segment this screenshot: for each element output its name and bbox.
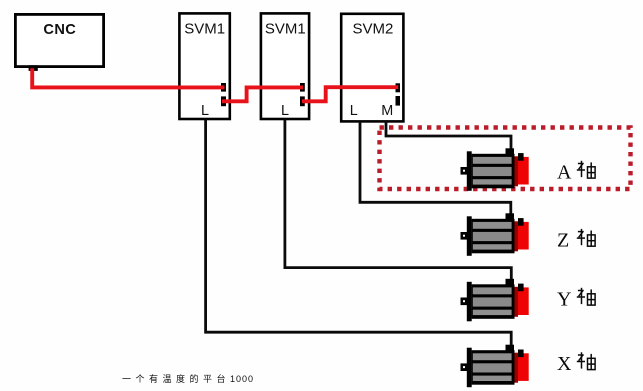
svg-text:Z: Z — [557, 230, 569, 252]
svg-text:SVM1: SVM1 — [184, 21, 225, 38]
svg-text:A: A — [557, 161, 572, 183]
svg-text:Y: Y — [557, 288, 571, 310]
svg-text:L: L — [350, 103, 358, 119]
svg-text:SVM2: SVM2 — [352, 21, 393, 38]
svg-text:SVM1: SVM1 — [265, 21, 306, 38]
svg-text:CNC: CNC — [43, 22, 76, 38]
svg-text:一 个 有 温 度 的 平 台 1000: 一 个 有 温 度 的 平 台 1000 — [122, 373, 254, 384]
svg-text:L: L — [281, 103, 289, 119]
svg-text:X: X — [557, 353, 572, 375]
svg-text:L: L — [201, 103, 209, 119]
svg-text:M: M — [381, 103, 393, 119]
